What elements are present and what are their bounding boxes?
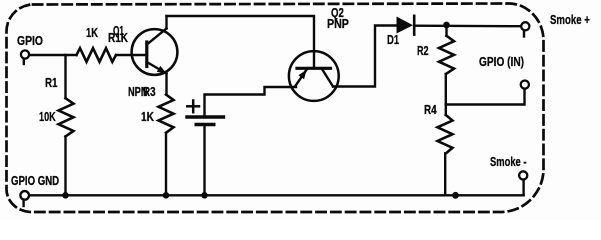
label Q2 [331,7,344,20]
label R1K [108,32,128,45]
label R3 [143,86,156,99]
terminal Smoke- [519,171,527,179]
label R1 [45,77,57,90]
label Smoke - [490,156,526,169]
label D1 [387,34,399,47]
label GPIO (IN) [479,56,524,69]
terminal GPIO GND [20,191,29,206]
wire R1 to ground bus [64,137,66,196]
terminal GPIO [21,50,29,64]
terminal GPIO (IN) [521,81,529,89]
resistor R3 (1K) [159,95,174,133]
wire R1K to Q1 base [116,54,147,56]
wire R2 bottom lead [445,74,447,105]
junction dot battery/bus [201,192,208,199]
wire D1 cathode to Smoke+ terminal [414,25,521,28]
wire Q2 collector to D1 [333,26,397,87]
label PNP [327,18,349,31]
label GPIO [17,35,43,48]
wire R1 branch vertical [64,55,66,98]
wire Q1 emitter to R3 [165,74,167,95]
resistor R1 (10K) [59,98,74,136]
junction dot R4/bus [452,192,459,199]
battery B1 bottom plate [196,123,214,126]
label Smoke + [550,14,590,27]
wire battery plus to Q2 emitter [205,87,297,116]
wire ground bus [30,194,524,196]
resistor R2 [439,36,454,74]
wire Q1 collector up [165,16,167,29]
battery B1 plus sign [187,101,199,113]
resistor R4 [438,105,453,196]
wire node to GPIO (IN) terminal [446,89,525,104]
label Q1 [113,25,124,38]
transistor Q1 (NPN) [132,29,178,75]
label 1K (R1K value) [86,27,98,40]
wire R2 top lead [445,25,447,36]
terminal Smoke+ [521,22,529,36]
label GPIO GND [11,175,59,188]
junction dot R1/bus [62,192,69,199]
wire top rail Q1 collector to Q2 base [167,16,315,68]
label R2 [417,45,429,58]
label R4 [424,104,437,117]
battery B1 top plate [187,115,224,118]
wire GPIO to R1K [30,54,77,56]
dashed enclosure border [7,4,544,213]
junction dot R3/bus [163,192,170,199]
label 10K [39,111,56,124]
diode D1 [397,16,415,35]
junction dot D1/R2 [443,22,450,29]
wire R3 to ground bus [165,133,167,196]
transistor Q2 (PNP) [289,51,339,101]
label NPN [128,86,148,99]
wire battery minus to ground bus [203,126,205,195]
resistor R1K (1K) horizontal [77,48,117,62]
label 1K (R3 value) [141,111,154,124]
wire bus to Smoke- terminal [522,180,524,195]
